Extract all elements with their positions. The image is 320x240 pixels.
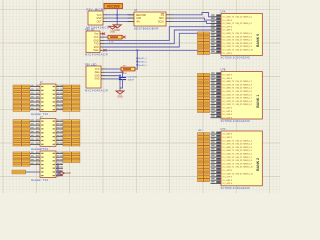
svg-text:CS: CS xyxy=(161,15,165,17)
svg-text:U?A: U?A xyxy=(221,11,226,14)
resistor pack right row 2 xyxy=(63,89,80,92)
pins xyxy=(211,14,222,53)
svg-text:IOB_29 TMDS_L9: IOB_29 TMDS_L9 xyxy=(236,104,253,106)
resistor pack row 4 xyxy=(198,83,210,86)
connector J1 pins xyxy=(30,85,63,110)
svg-text:IO_L05P 0: IO_L05P 0 xyxy=(223,20,233,22)
resistor pack row 1 xyxy=(198,73,210,76)
resistor pack right row 4 xyxy=(63,131,80,134)
resistor pack left row 1 xyxy=(13,120,30,123)
svg-text:IO_L15P 0: IO_L15P 0 xyxy=(223,111,233,113)
resistor pack row 1 xyxy=(198,32,210,35)
svg-text:MIC4040ACR: MIC4040ACR xyxy=(85,89,108,93)
resistor pack row 7 xyxy=(198,52,210,55)
svg-text:IOB_27 TMDS_L7: IOB_27 TMDS_L7 xyxy=(236,98,253,100)
svg-text:TXD: TXD xyxy=(94,44,99,46)
svg-text:IO_L06N_T2: IO_L06N_T2 xyxy=(223,81,235,83)
connector J1 xyxy=(31,81,56,116)
resistor pack row 2 xyxy=(198,136,210,139)
svg-text:IO_L19P 0: IO_L19P 0 xyxy=(223,183,233,185)
wire TXD net xyxy=(104,27,221,41)
svg-text:IOB_25 TMDS_L5: IOB_25 TMDS_L5 xyxy=(236,150,253,152)
svg-text:OUT: OUT xyxy=(97,21,102,23)
svg-text:IO_L08N_T0: IO_L08N_T0 xyxy=(223,147,235,149)
svg-text:ADS7866IDBVR: ADS7866IDBVR xyxy=(134,26,159,30)
resistor pack left row 2 xyxy=(13,124,30,127)
svg-text:Data: Data xyxy=(95,71,101,74)
svg-text:IO_L12N_T0: IO_L12N_T0 xyxy=(223,101,235,103)
resistor pack row 10 xyxy=(198,162,210,165)
resistor pack right row 1 xyxy=(63,152,80,155)
resistor pack left row 3 xyxy=(13,93,30,96)
svg-text:SDO: SDO xyxy=(159,18,164,20)
ground GND xyxy=(109,26,116,33)
svg-text:IOB_28 TMDS_L8: IOB_28 TMDS_L8 xyxy=(236,160,253,162)
node junction xyxy=(57,164,59,177)
svg-text:GND: GND xyxy=(95,75,100,77)
resistor pack right row 6 xyxy=(63,104,80,107)
svg-text:IOB_22 TMDS_L2: IOB_22 TMDS_L2 xyxy=(236,23,253,25)
no-connect X xyxy=(123,36,126,39)
wire gnd bus xyxy=(56,165,58,176)
resistor pack left row 2 xyxy=(13,156,30,159)
svg-text:P5V_BT: P5V_BT xyxy=(85,27,95,31)
connector J2 pins xyxy=(30,119,63,144)
resistor pack right row 3 xyxy=(63,93,80,96)
resistor pack right row 1 xyxy=(63,85,80,88)
resistor pack right row 1 xyxy=(63,120,80,123)
svg-text:VCC: VCC xyxy=(97,15,102,17)
ground GND xyxy=(113,25,121,32)
pins xyxy=(211,72,222,117)
power port VCC3V3 xyxy=(104,4,123,9)
resistor pack left row 4 xyxy=(13,97,30,100)
resistor pack row 9 xyxy=(198,159,210,162)
resistor pack row 11 xyxy=(198,106,210,109)
resistor pack row 8 xyxy=(198,156,210,159)
FPGA BANK 1 xyxy=(221,69,263,124)
resistor R2 xyxy=(108,35,122,43)
resistor pack right row 2 xyxy=(63,124,80,127)
resistor pack left row 7 xyxy=(13,108,30,111)
svg-text:IO_L10N_T2: IO_L10N_T2 xyxy=(223,154,235,156)
resistor pack row 3 xyxy=(198,39,210,42)
svg-text:IOB_29 TMDS_L9: IOB_29 TMDS_L9 xyxy=(236,163,253,165)
svg-text:IOB_27 TMDS_L7: IOB_27 TMDS_L7 xyxy=(236,157,253,159)
resistor pack row 12 xyxy=(198,169,210,172)
svg-text:P5V_MICRO: P5V_MICRO xyxy=(87,8,107,12)
svg-text:NetR3_2: NetR3_2 xyxy=(139,64,148,67)
resistor pack row 3 xyxy=(198,139,210,142)
resistor pack right row 3 xyxy=(63,159,80,162)
svg-text:IOB_30 TMDS_L10: IOB_30 TMDS_L10 xyxy=(236,50,254,52)
module U3 HC-05 xyxy=(85,27,108,56)
resistor pack left row 5 xyxy=(13,135,30,138)
resistor pack row 11 xyxy=(198,166,210,169)
svg-text:IO_L08N_T0: IO_L08N_T0 xyxy=(223,88,235,90)
svg-text:IOB_25 TMDS_L5: IOB_25 TMDS_L5 xyxy=(236,33,253,35)
svg-text:IO_L04P 0: IO_L04P 0 xyxy=(223,75,233,77)
resistor pack row 7 xyxy=(198,152,210,155)
svg-text:100nF: 100nF xyxy=(128,80,135,82)
wire net to stack xyxy=(135,50,137,69)
svg-text:Cap Semi: Cap Semi xyxy=(128,76,138,78)
svg-text:GND: GND xyxy=(94,40,99,42)
svg-text:GND: GND xyxy=(110,32,115,34)
svg-text:GND: GND xyxy=(114,29,120,32)
svg-text:IO_L18P 0: IO_L18P 0 xyxy=(223,180,233,182)
resistor pack right row 5 xyxy=(63,100,80,103)
pins xyxy=(211,132,222,184)
wire xyxy=(105,68,121,70)
svg-text:IO_L14N_T2: IO_L14N_T2 xyxy=(223,167,235,169)
svg-text:BANK 1: BANK 1 xyxy=(256,95,260,108)
wire Data xyxy=(105,71,123,73)
no-connect X xyxy=(104,49,107,51)
resistor pack row 5 xyxy=(198,87,210,90)
wire net4 xyxy=(104,49,198,51)
svg-text:IO_L11N_T3: IO_L11N_T3 xyxy=(223,157,235,159)
connector J3 xyxy=(31,148,56,182)
svg-text:IOB_26 TMDS_L6: IOB_26 TMDS_L6 xyxy=(236,94,253,96)
resistor pack row 9 xyxy=(198,100,210,103)
wire CS to BANK0 xyxy=(173,13,221,17)
resistor pack row 2 xyxy=(198,35,210,38)
resistor pack left row 6 xyxy=(13,139,30,142)
no-connect X xyxy=(102,33,105,35)
svg-text:IOB_22 TMDS_L2: IOB_22 TMDS_L2 xyxy=(236,81,253,83)
svg-text:IO_L17P 0: IO_L17P 0 xyxy=(223,117,233,119)
ground GND xyxy=(116,91,124,99)
resistor network RN? label xyxy=(198,130,203,132)
svg-text:IO_L09N_T1: IO_L09N_T1 xyxy=(223,150,235,152)
node NetR1 xyxy=(139,57,148,67)
svg-text:IOB_27 TMDS_L7: IOB_27 TMDS_L7 xyxy=(236,40,253,42)
wire xyxy=(105,76,120,91)
svg-text:IOB_22 TMDS_L2: IOB_22 TMDS_L2 xyxy=(236,140,253,142)
svg-text:IOB_28 TMDS_L8: IOB_28 TMDS_L8 xyxy=(236,101,253,103)
resistor pack row 13 xyxy=(198,172,210,175)
regulator U1 MIC4040 xyxy=(87,8,110,30)
connector J3 pins xyxy=(30,152,63,176)
wire xyxy=(106,15,134,22)
resistor pack row 6 xyxy=(198,48,210,51)
resistor pack row 3 xyxy=(198,80,210,83)
node junction xyxy=(136,57,138,66)
resistor pack left row 4 xyxy=(13,131,30,134)
resistor pack row 5 xyxy=(198,146,210,149)
svg-text:GND: GND xyxy=(66,173,71,175)
svg-text:VCC: VCC xyxy=(95,69,100,71)
resistor pack row 6 xyxy=(198,90,210,93)
module U4 LED xyxy=(85,62,108,92)
svg-text:SCLK: SCLK xyxy=(158,21,164,23)
svg-text:IOB_29 TMDS_L9: IOB_29 TMDS_L9 xyxy=(236,46,253,48)
svg-text:IO_L16P 0: IO_L16P 0 xyxy=(223,114,233,116)
svg-text:IO_L05P 0: IO_L05P 0 xyxy=(223,137,233,139)
svg-text:IO_L13N_T1: IO_L13N_T1 xyxy=(223,104,235,106)
svg-text:IO_L14P 0: IO_L14P 0 xyxy=(223,108,233,110)
svg-text:IOB_24 TMDS_L4: IOB_24 TMDS_L4 xyxy=(236,88,253,90)
svg-text:GND: GND xyxy=(117,96,123,99)
resistor pack row 7 xyxy=(198,93,210,96)
node junction xyxy=(116,14,118,19)
svg-text:IO_L10N_T2: IO_L10N_T2 xyxy=(223,94,235,96)
svg-text:MIC4040ACR: MIC4040ACR xyxy=(85,53,108,57)
svg-text:NetR1_2: NetR1_2 xyxy=(139,57,148,60)
resistor pack right row 7 xyxy=(63,143,80,146)
svg-text:IOB_24 TMDS_L4: IOB_24 TMDS_L4 xyxy=(236,147,253,149)
svg-text:IO_L08P 0: IO_L08P 0 xyxy=(223,30,233,32)
resistor R4 xyxy=(12,170,26,174)
resistor pack row 1 xyxy=(198,133,210,136)
svg-text:IO_L11N_T3: IO_L11N_T3 xyxy=(223,40,235,42)
resistor pack row 10 xyxy=(198,103,210,106)
svg-text:NetR2_2: NetR2_2 xyxy=(139,61,148,64)
resistor pack left row 3 xyxy=(13,127,30,130)
svg-text:P5V_LED: P5V_LED xyxy=(85,62,97,66)
svg-text:IOB_20 TMDS_L0: IOB_20 TMDS_L0 xyxy=(236,17,253,19)
resistor pack right row 2 xyxy=(63,156,80,159)
svg-text:IOB_30 TMDS_L10: IOB_30 TMDS_L10 xyxy=(236,167,254,169)
resistor pack row 6 xyxy=(198,149,210,152)
svg-text:IO_L07N_T3: IO_L07N_T3 xyxy=(223,144,235,146)
svg-text:IO_L12N_T0: IO_L12N_T0 xyxy=(223,43,235,45)
resistor pack right row 7 xyxy=(63,108,80,111)
resistor pack left row 4 xyxy=(13,163,30,166)
svg-text:IOB_28 TMDS_L8: IOB_28 TMDS_L8 xyxy=(236,43,253,45)
svg-text:IO_L10N_T2: IO_L10N_T2 xyxy=(223,36,235,38)
svg-text:Header 7X2: Header 7X2 xyxy=(31,178,49,182)
svg-text:IOB_23 TMDS_L3: IOB_23 TMDS_L3 xyxy=(236,84,253,86)
resistor pack row 2 xyxy=(198,77,210,80)
svg-text:IO_L14N_T2: IO_L14N_T2 xyxy=(223,50,235,52)
svg-text:IO_L11N_T3: IO_L11N_T3 xyxy=(223,98,235,100)
wire xyxy=(26,171,41,173)
svg-text:IO_L04P 0: IO_L04P 0 xyxy=(223,134,233,136)
svg-text:XC7S50-1CSGA324C: XC7S50-1CSGA324C xyxy=(221,186,251,190)
svg-text:IO_L09N_T1: IO_L09N_T1 xyxy=(223,33,235,35)
FPGA BANK 0 xyxy=(221,11,263,60)
resistor R3 xyxy=(121,65,135,75)
svg-text:RXD: RXD xyxy=(94,47,99,49)
ground GND right arrow xyxy=(58,171,71,175)
wire State net xyxy=(104,33,198,47)
connector J2 xyxy=(31,116,56,151)
svg-text:IOB_25 TMDS_L5: IOB_25 TMDS_L5 xyxy=(236,91,253,93)
svg-text:IO_L15P 0: IO_L15P 0 xyxy=(223,170,233,172)
resistor pack row 15 xyxy=(198,179,210,182)
svg-text:IO_L07P 0: IO_L07P 0 xyxy=(223,26,233,28)
svg-text:IO_L13N_T1: IO_L13N_T1 xyxy=(223,163,235,165)
svg-text:VCC: VCC xyxy=(94,37,99,39)
node junction xyxy=(119,71,124,80)
resistor pack row 12 xyxy=(198,110,210,113)
svg-text:IO_L17P 0: IO_L17P 0 xyxy=(223,177,233,179)
op-amp U2 ADS7866 xyxy=(128,9,174,30)
svg-text:XC7S50-1CSGA324C: XC7S50-1CSGA324C xyxy=(221,119,251,123)
svg-text:U?B: U?B xyxy=(221,69,226,72)
resistor pack left row 6 xyxy=(13,104,30,107)
svg-text:GND: GND xyxy=(96,18,101,20)
svg-text:XC7S50-1CSGA324C: XC7S50-1CSGA324C xyxy=(221,56,251,60)
svg-text:VIN: VIN xyxy=(136,21,140,23)
resistor pack left row 5 xyxy=(13,100,30,103)
svg-text:IO_L09N_T1: IO_L09N_T1 xyxy=(223,91,235,93)
svg-text:IO_L05P 0: IO_L05P 0 xyxy=(223,78,233,80)
node junction xyxy=(136,49,138,51)
svg-text:RN?: RN? xyxy=(198,130,203,132)
svg-text:IO_L16N_T0: IO_L16N_T0 xyxy=(223,173,235,175)
resistor pack left row 1 xyxy=(13,85,30,88)
resistor pack row 4 xyxy=(198,143,210,146)
resistor pack right row 4 xyxy=(63,97,80,100)
resistor pack left row 7 xyxy=(13,143,30,146)
svg-text:IOB_32 TMDS_L12: IOB_32 TMDS_L12 xyxy=(236,173,254,175)
wire xyxy=(116,9,118,25)
wire RXD net xyxy=(104,30,221,44)
FPGA BANK 2 xyxy=(221,128,263,190)
resistor pack row 14 xyxy=(198,176,210,179)
svg-text:VCC3V3: VCC3V3 xyxy=(107,5,120,9)
svg-text:U?C: U?C xyxy=(221,128,226,131)
resistor pack right row 3 xyxy=(63,127,80,130)
svg-text:IOB_26 TMDS_L6: IOB_26 TMDS_L6 xyxy=(236,154,253,156)
resistor pack right row 6 xyxy=(63,139,80,142)
svg-text:IO_L04N_T0: IO_L04N_T0 xyxy=(223,17,235,19)
svg-text:IO_L06N_T2: IO_L06N_T2 xyxy=(223,23,235,25)
resistor pack right row 5 xyxy=(63,135,80,138)
svg-text:BANK 2: BANK 2 xyxy=(256,158,260,171)
svg-text:IO_L12N_T0: IO_L12N_T0 xyxy=(223,160,235,162)
svg-text:IO_L15P 0: IO_L15P 0 xyxy=(223,53,233,55)
resistor pack row 5 xyxy=(198,45,210,48)
resistor pack row 8 xyxy=(198,97,210,100)
svg-text:BANK 0: BANK 0 xyxy=(256,34,260,47)
resistor pack left row 3 xyxy=(13,159,30,162)
svg-text:IO_L06N_T2: IO_L06N_T2 xyxy=(223,140,235,142)
wire xyxy=(104,36,108,38)
svg-text:REF/VDD: REF/VDD xyxy=(136,15,146,17)
resistor pack row 4 xyxy=(198,42,210,45)
wire SDO to BANK0 xyxy=(173,18,221,20)
svg-text:IOB_26 TMDS_L6: IOB_26 TMDS_L6 xyxy=(236,36,253,38)
capacitor C1 xyxy=(119,72,138,88)
svg-text:IO_L07N_T3: IO_L07N_T3 xyxy=(223,84,235,86)
svg-text:GND: GND xyxy=(95,79,100,81)
resistor pack left row 1 xyxy=(13,152,30,155)
wire SCLK to BANK0 xyxy=(173,21,221,23)
svg-text:IO_L13N_T1: IO_L13N_T1 xyxy=(223,46,235,48)
svg-text:GND: GND xyxy=(136,18,141,20)
resistor pack left row 2 xyxy=(13,89,30,92)
svg-text:IOB_23 TMDS_L3: IOB_23 TMDS_L3 xyxy=(236,144,253,146)
